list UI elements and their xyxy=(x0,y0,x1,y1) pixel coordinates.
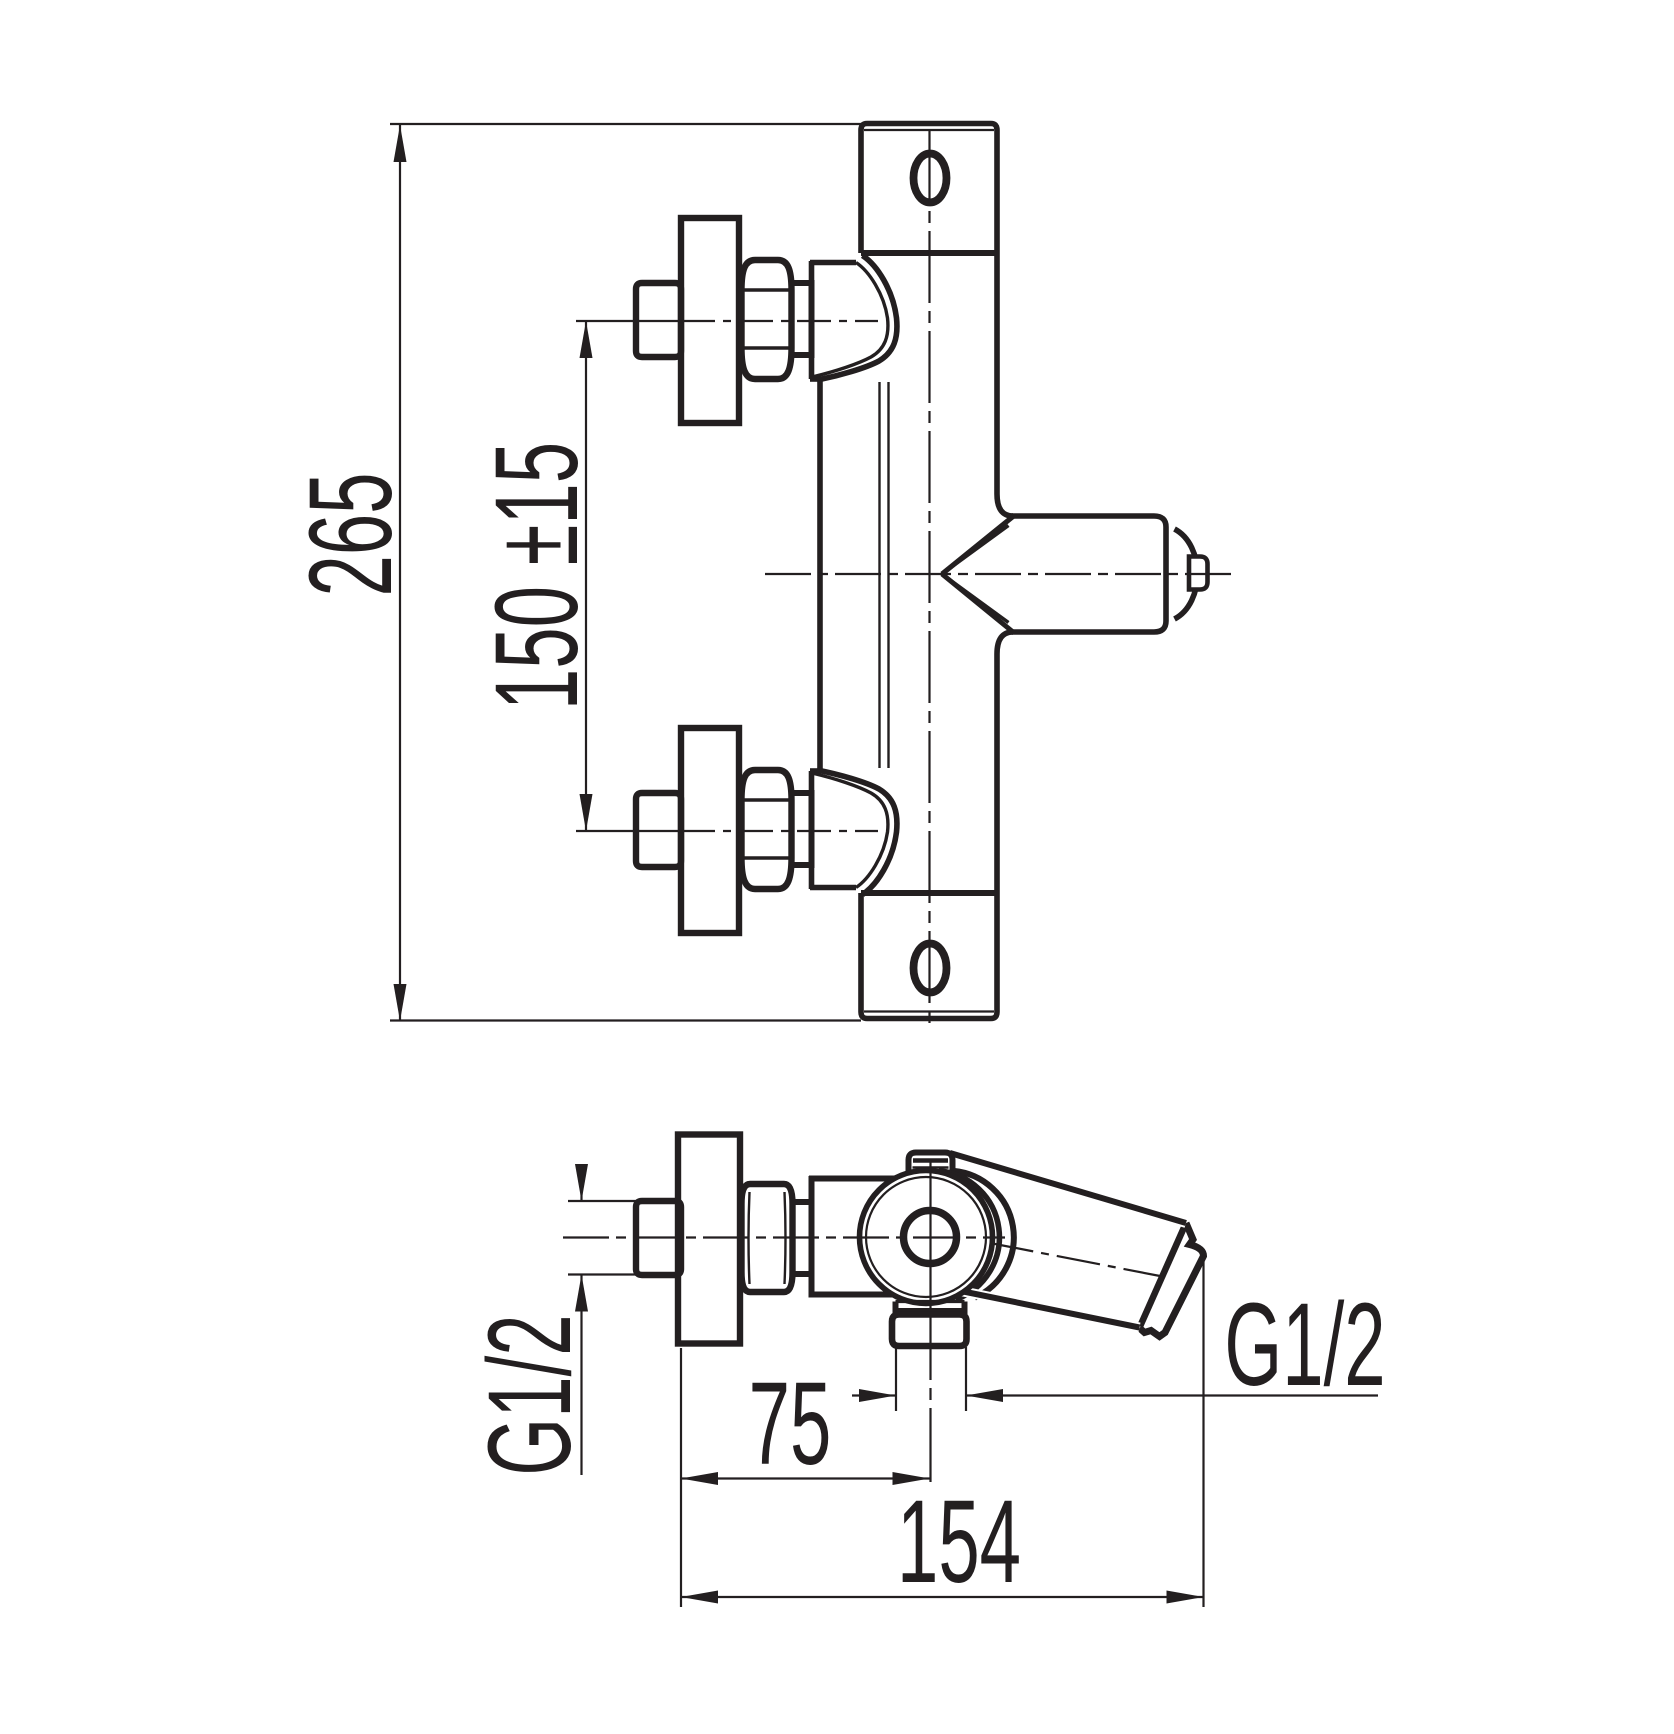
side spout top edge xyxy=(950,1153,1186,1223)
bottom inlet stub xyxy=(636,793,681,867)
bottom inlet escutcheon xyxy=(681,728,739,933)
wall bracket bottom plate xyxy=(861,893,997,1019)
spout cone inner bottom xyxy=(942,574,1009,623)
dimension 265 line xyxy=(390,124,861,1021)
bottom inlet connector xyxy=(792,793,812,865)
svg-text:G1/2: G1/2 xyxy=(1224,1279,1385,1411)
side body housing xyxy=(809,1176,918,1298)
spout cylinder front view xyxy=(1012,516,1197,632)
bottom inlet nut xyxy=(742,770,792,889)
knob front face circle xyxy=(860,1171,993,1304)
side connector xyxy=(793,1202,812,1274)
upper inlet transition boss xyxy=(810,256,897,381)
top inlet connector xyxy=(792,283,812,355)
spout cone outer bottom xyxy=(942,574,1013,632)
spout cone outer top xyxy=(942,517,1013,575)
G1/2 left dimension xyxy=(568,1164,676,1475)
top inlet centerline xyxy=(576,320,681,322)
G1/2 right dimension xyxy=(852,1389,1378,1402)
dimension 75 xyxy=(681,1348,930,1607)
svg-text:265: 265 xyxy=(285,472,417,596)
body left edge xyxy=(817,378,823,772)
front spout centerline xyxy=(765,573,1238,575)
side nut xyxy=(742,1184,793,1292)
side horizontal centerline xyxy=(563,1236,1005,1238)
top inlet escutcheon xyxy=(681,218,739,423)
knob rear crescent arc mid xyxy=(939,1171,1000,1300)
knob center hole xyxy=(904,1211,957,1264)
side spout axis centerline xyxy=(990,1243,1160,1276)
knob rear crescent arc outer xyxy=(954,1171,1014,1298)
side spout cap face xyxy=(1140,1223,1204,1337)
wall bracket top plate xyxy=(861,124,997,254)
top bracket slot hole xyxy=(914,154,947,203)
body right edge lower segment xyxy=(997,632,1013,893)
svg-text:150 ±15: 150 ±15 xyxy=(471,442,603,710)
body inner highlight line 2 xyxy=(887,382,889,768)
top inlet nut xyxy=(742,260,792,379)
dimension 154 xyxy=(681,1254,1204,1607)
bottom inlet centerline xyxy=(576,830,681,832)
svg-text:G1/2: G1/2 xyxy=(464,1314,596,1475)
knob button xyxy=(909,1153,953,1186)
dimension 150 ±15 line xyxy=(580,321,593,831)
shower hose collar xyxy=(895,1302,966,1317)
shower hose nut xyxy=(892,1315,967,1347)
side spout bottom edge xyxy=(936,1286,1140,1327)
side inlet stub xyxy=(636,1201,681,1275)
front vertical centerline xyxy=(928,131,930,1026)
shower hose thread lines xyxy=(896,1347,966,1411)
body right edge upper segment xyxy=(997,253,1013,516)
spout cone inner top xyxy=(942,526,1009,575)
top inlet stub xyxy=(636,283,681,357)
bottom bracket slot hole xyxy=(914,944,947,993)
side escutcheon xyxy=(678,1135,740,1344)
lower inlet transition boss xyxy=(810,770,897,895)
side spout end edge xyxy=(1140,1223,1186,1327)
knob inner rim circle xyxy=(866,1177,986,1297)
spout aerator notch front view xyxy=(1189,557,1208,590)
svg-text:75: 75 xyxy=(749,1358,832,1490)
side vertical centerline xyxy=(929,1160,931,1302)
svg-text:154: 154 xyxy=(897,1476,1021,1608)
body inner highlight line 1 xyxy=(878,382,880,768)
